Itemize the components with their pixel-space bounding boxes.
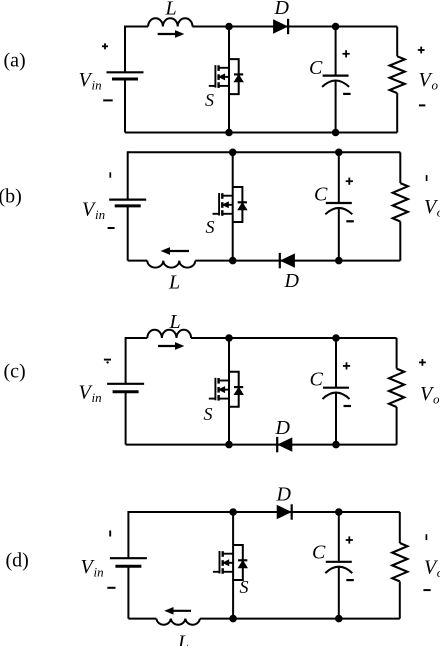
wire (b) left rail above battery [127,151,129,199]
label Vin (c) [79,382,102,406]
capacitor (a) plus polarity mark [343,53,350,55]
svg-text:C: C [309,57,323,79]
svg-text:D: D [276,483,292,505]
capacitor (d) minus polarity mark [346,579,354,581]
junction dot (c) switch-node bottom [225,441,233,449]
junction dot (c) output node top [332,334,340,342]
svg-text:(b): (b) [0,186,22,208]
wire (c) top rail from inductor to right rail [191,337,397,339]
capacitor C (b) [325,152,352,260]
label Vin (a) [79,69,102,93]
wire (b) top rail [128,151,401,153]
svg-text:S: S [204,404,213,424]
wire (d) left rail above battery [127,511,129,558]
svg-text:in: in [92,390,102,405]
wire (c) top rail left of inductor [126,337,148,339]
load resistor (a) zigzag [390,27,405,133]
wire (c) left rail below battery [125,392,127,445]
current direction arrow (d) inductor current [166,608,192,614]
output plus sign (a) [418,49,425,51]
svg-text:L: L [165,0,177,19]
junction dot (a) output node bottom [332,129,340,137]
capacitor C (d) [325,512,352,619]
svg-text:(a): (a) [4,50,26,72]
wire (b) switch branch [232,152,234,260]
capacitor (c) minus polarity mark [344,405,352,407]
wire (a) top rail left of inductor [125,26,148,28]
wire (b) left rail below battery [127,206,129,261]
battery (d) minus sign [107,587,115,589]
wire (a) top rail from inductor to right rail [192,26,397,28]
wire (c) switch branch [228,338,230,445]
capacitor (a) minus polarity mark [343,93,351,95]
capacitor C (c) [323,338,350,445]
wire (d) top rail [128,511,399,513]
capacitor C (a) [322,27,349,133]
svg-text:C: C [314,183,328,205]
svg-text:in: in [94,565,104,580]
diode D (d) [277,504,292,519]
load resistor (b) zigzag [393,152,408,260]
battery (a) minus sign [103,99,113,101]
battery (b) minus sign [108,227,115,229]
wire (b) bottom rail from inductor to right rail [195,260,400,262]
output plus tick (b) [426,175,428,181]
MOSFET switch S (c) [209,372,243,407]
wire (d) switch branch [232,512,234,619]
battery Vin source (c) plates [107,384,144,392]
output minus sign (a) [419,104,425,106]
svg-text:o: o [432,78,439,93]
svg-text:(d): (d) [6,550,29,572]
label Vin (d) [81,556,104,580]
junction dot (c) output node bottom [332,441,340,449]
MOSFET switch S (d) [213,545,247,580]
svg-text:D: D [275,417,291,439]
svg-text:(c): (c) [4,361,26,383]
inductor L (c) winding [147,330,191,338]
svg-text:in: in [92,78,102,93]
wire (a) bottom rail [125,132,397,134]
output plus sign (c) [419,361,426,363]
diode D (b) [280,253,295,268]
svg-text:S: S [206,217,215,237]
svg-text:D: D [274,0,290,19]
label Vin (b) [82,199,105,223]
battery (d) plus tick [109,531,111,537]
junction dot (d) switch-node bottom [229,615,237,623]
junction dot (b) output node bottom [335,257,343,265]
junction dot (a) output node top [332,23,340,31]
inductor L (b) winding [147,261,195,268]
capacitor (c) plus polarity mark [343,365,350,367]
svg-text:L: L [168,272,180,294]
wire (c) left rail above battery [125,337,127,384]
svg-text:o: o [433,392,440,407]
inductor L (d) winding [156,619,200,625]
wire (b) bottom rail left of inductor [128,260,148,262]
svg-text:C: C [312,542,326,564]
junction dot (a) switch-node top [225,23,233,31]
junction dot (b) switch-node bottom [229,257,237,265]
capacitor (b) plus polarity mark [346,180,353,182]
svg-text:C: C [310,369,324,391]
wire (d) left rail below battery [127,566,129,618]
battery (b) plus tick [109,172,111,177]
capacitor (b) minus polarity mark [346,220,354,222]
label Vo (c) [420,383,440,407]
junction dot (d) switch-node top [229,508,237,516]
output minus sign (d) [423,589,430,591]
label Vo (b) [424,196,440,220]
svg-text:L: L [169,311,181,333]
svg-text:S: S [240,577,249,597]
svg-text:in: in [95,207,105,222]
junction dot (d) output node bottom [335,615,343,623]
battery Vin source (b) plates [109,200,146,206]
diode D (c) [277,437,292,452]
wire (c) bottom rail [126,444,397,446]
label Vo (a) [419,69,439,93]
battery Vin source (d) plates [110,558,147,566]
capacitor (d) plus polarity mark [346,539,353,541]
load resistor (d) zigzag [392,512,407,619]
current direction arrow (a) inductor current [158,31,183,37]
diode D (a) [274,19,289,34]
label Vo (d) [424,557,440,581]
MOSFET switch S (a) [209,59,243,94]
wire (a) switch branch [228,27,230,133]
junction dot (a) switch-node bottom [225,129,233,137]
wire (a) left rail below battery [124,79,126,133]
battery (c) plus mark (dash and dot) [104,360,111,364]
svg-text:D: D [284,270,300,292]
load resistor (c) zigzag [389,338,404,445]
inductor L (a) winding [148,18,192,26]
junction dot (b) output node top [335,149,343,157]
svg-text:S: S [205,90,214,110]
battery (a) plus sign [102,45,108,47]
junction dot (b) switch-node top [229,149,237,157]
junction dot (d) output node top [335,508,343,516]
junction dot (c) switch-node top [225,334,233,342]
wire (d) bottom rail left of inductor [128,618,156,620]
svg-text:L: L [177,632,189,646]
current direction arrow (b) inductor current [162,248,189,254]
output plus tick (d) [425,534,427,540]
wire (a) left rail above battery [124,26,126,73]
wire (d) bottom rail from inductor to right rail [200,618,400,620]
current direction arrow (c) inductor current [158,343,183,349]
battery Vin source (a) plates [107,72,144,79]
MOSFET switch S (b) [213,187,247,222]
